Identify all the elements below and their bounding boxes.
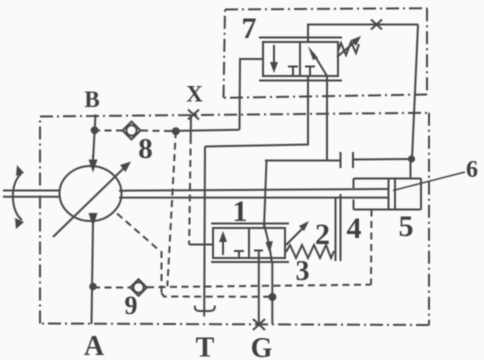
svg-text:8: 8 [138,133,153,165]
valve U7 right position blocked port T-stub [305,67,315,77]
orifice 8 (check/orifice diamond) [123,122,141,140]
wire: dashed control vertical from node J2 down [168,131,176,286]
piston 6 inside cylinder [389,179,396,210]
valve U1 right position blocked port T-stub [254,251,263,259]
plug X symbol on valve U7 vent line [371,20,382,30]
svg-text:4: 4 [347,212,362,245]
node J2 junction dot [172,127,180,135]
bidirectional rotation arrow on shaft [13,165,24,229]
cylinder C5 (control piston body) [354,179,422,210]
wire: right vertical drop to node J5 [412,25,418,160]
enclosure: main manifold block (dash-dot box) [40,113,429,325]
svg-text:9: 9 [125,291,138,320]
wire: coupling to node J5 [353,158,412,161]
wire: valve U1 drain stub down to plugged boundary port [258,258,260,324]
wire: node J5 down to cylinder 5 head side [410,159,412,179]
valve U7 adjustable spring (relief setting) [337,36,361,57]
plugged coupling (two facing bars) on pilot line [327,152,353,168]
wire: tank line vertical [203,147,206,317]
wire: motor bottom line to port A [92,223,94,324]
wire: dashed bridge from node J1 through orifice 8 to node J2 [93,130,168,133]
port B line entering manifold [93,115,96,162]
plug X symbol at bottom boundary [253,319,265,330]
valve U1 left position flow arrow (up) [219,231,227,255]
adjustment arrow 2 [286,221,309,245]
wire: mechanical shaft/rod double line from motor to piston (upper) [119,189,389,191]
node J6 junction dot on G line [268,293,276,301]
svg-text:5: 5 [399,210,414,243]
wire: dashed drop from cylinder rod chamber [370,210,373,285]
wire: mechanical shaft/rod double line from motor to piston (lower) [119,197,389,199]
valve U7 left position flow arrow (down) [270,45,278,73]
variable displacement arrow through motor [53,162,131,238]
wire: motor case drain (dashed) to node J6 [117,214,272,297]
svg-text:X: X [186,82,203,107]
svg-text:1: 1 [233,195,248,228]
hydraulic motor M (variable displacement) [60,166,122,221]
leader line for label 6 [393,172,465,191]
node J1 dot on B line [91,126,99,134]
node J3 dot on A line [89,283,97,291]
valve U1 left position blocked port T-stub [234,251,244,258]
svg-text:7: 7 [242,12,257,45]
wire: valve U1 right port down to port G [271,263,273,324]
plug X symbol at port X [188,110,199,120]
valve U7 right position flow arrow (up-left diagonal) [308,46,327,76]
svg-text:6: 6 [466,157,478,183]
motor inlet flow arrow (top triangle) [89,155,98,173]
motor shaft (double line) [3,191,60,197]
enclosure: pilot relief subplate (dash-dot box, component 7 housing) [224,8,428,98]
orifice 9 (check/orifice diamond) [130,279,147,296]
wire: valve U7 bottom left port to tank line [205,76,308,147]
svg-text:G: G [251,333,273,360]
valve U7 left position blocked port T-stub [288,67,298,77]
valve U1 right position flow path arrow (down) [264,224,273,263]
wire: port X pilot line (dashed) to valve U1 left port [190,115,192,137]
svg-text:3: 3 [296,256,310,287]
wire: dashed bridge from node J3 through orifice 9 toward cylinder [93,285,371,288]
svg-text:2: 2 [315,218,330,251]
wire: valve U7 pilot sense line to node J1 (left side entry) [240,59,264,130]
valve U7 (pilot relief valve, 2-position) [259,38,342,81]
wire: valve U7 top port up and over to right drop [308,25,418,43]
wire: drop to valve U1 top port [264,161,267,229]
motor outlet flow arrow (bottom triangle) [89,213,98,227]
svg-text:T: T [196,333,215,360]
valve U1 (control spool valve, 2-position) [211,224,289,263]
svg-text:A: A [84,331,105,360]
wire: valve U7 bottom right port down to node J4 level [265,76,327,161]
mechanical feedback link (double line) from piston rod [336,194,341,261]
svg-text:B: B [84,87,99,112]
spring 3 (feedback spring) [286,245,334,258]
node J5 junction dot [408,155,415,162]
tank reservoir symbol (port T) [195,306,215,312]
